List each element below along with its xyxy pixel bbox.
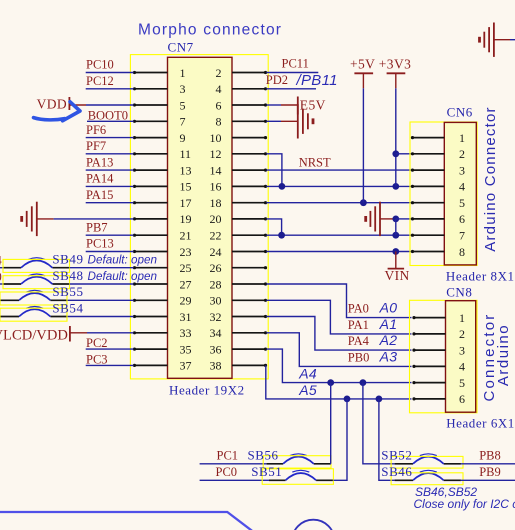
svg-text:SB48: SB48 xyxy=(52,268,83,283)
solder bridge SB48 xyxy=(4,274,70,284)
svg-text:PA14: PA14 xyxy=(86,172,114,186)
wire A4 down to SB52 xyxy=(363,383,395,464)
svg-text:5: 5 xyxy=(459,376,465,390)
wire SB49 to CN7 xyxy=(70,267,134,269)
svg-text:PC13: PC13 xyxy=(86,237,114,251)
svg-text:10: 10 xyxy=(210,131,222,145)
svg-text:5: 5 xyxy=(459,196,465,210)
svg-text:Header 6X1: Header 6X1 xyxy=(446,415,515,430)
svg-text:1: 1 xyxy=(180,66,186,80)
svg-text:2: 2 xyxy=(216,66,222,80)
wire SB48 to CN7 xyxy=(70,283,134,285)
selection highlight SB55 xyxy=(0,292,67,305)
ground symbol at CN7 pin 8 xyxy=(298,104,313,138)
solder bridge SB49 xyxy=(4,258,70,268)
svg-text:5: 5 xyxy=(180,98,186,112)
svg-text:8: 8 xyxy=(459,245,465,259)
junction CN7 pin12/pin16 xyxy=(279,183,286,190)
wire PF6 to CN7 pin 9 xyxy=(86,137,134,139)
wire CN7 pin 8 to ground xyxy=(267,120,298,122)
wire PF7 to CN7 pin 11 xyxy=(86,153,134,155)
wire PC1 to SB56 xyxy=(200,463,267,465)
ground symbol near CN6 pin 6 xyxy=(366,202,396,236)
svg-text:A2: A2 xyxy=(379,332,398,348)
wire +3V3 down to row 8 xyxy=(395,88,397,186)
selection highlight SB51 xyxy=(262,469,333,485)
svg-text:SB54: SB54 xyxy=(52,300,83,315)
svg-text:A0: A0 xyxy=(379,300,398,316)
wire PB0/A3 CN7 pin 34 to CN8 xyxy=(267,333,412,367)
svg-text:12: 12 xyxy=(210,147,222,161)
svg-text:PC12: PC12 xyxy=(86,74,114,88)
svg-text:SB56: SB56 xyxy=(248,448,279,463)
svg-text:4: 4 xyxy=(459,180,465,194)
wire left edge to SB48 xyxy=(0,283,4,285)
svg-text:1: 1 xyxy=(459,131,465,145)
svg-text:18: 18 xyxy=(210,196,222,210)
svg-text:3: 3 xyxy=(459,343,465,357)
wire PA4/A2 CN7 pin 32 to CN8 xyxy=(267,317,412,351)
wire at top right ground xyxy=(510,39,515,41)
svg-text:6: 6 xyxy=(459,392,465,406)
svg-text:35: 35 xyxy=(180,342,192,356)
svg-text:+3V3: +3V3 xyxy=(379,57,411,72)
circle part bottom xyxy=(292,520,335,530)
svg-text:A4: A4 xyxy=(298,366,317,382)
svg-text:34: 34 xyxy=(210,326,222,340)
svg-text:3: 3 xyxy=(180,82,186,96)
wire A5 CN7 pin 38 to CN8 pin 6 xyxy=(266,365,412,399)
svg-text:PC3: PC3 xyxy=(86,352,108,366)
wire +5V down to row 9 xyxy=(362,88,364,202)
CN6 pin numbers xyxy=(459,131,465,259)
power symbol E5V bar xyxy=(297,97,299,115)
wire PC12 to CN7 pin 3 xyxy=(86,88,134,90)
wire PA1/A1 CN7 pin 30 to CN8 xyxy=(267,300,412,334)
connector CN7 body xyxy=(168,57,233,378)
svg-text:Morpho connector: Morpho connector xyxy=(138,22,282,39)
selection highlight SB52 xyxy=(391,456,463,468)
svg-text:Default: open: Default: open xyxy=(88,270,158,283)
solder bridge SB56 xyxy=(267,454,331,464)
svg-text:20: 20 xyxy=(210,212,222,226)
junction +3V3 at CN6 pin 2 xyxy=(392,150,399,157)
wire SB51 up to A5 xyxy=(333,399,347,480)
wire CN7 pin 6 to E5V xyxy=(267,104,298,106)
svg-text:0: 0 xyxy=(0,270,2,284)
CN8 pins xyxy=(413,318,446,399)
wire left edge to SB49 xyxy=(0,267,4,269)
svg-text:BOOT0: BOOT0 xyxy=(88,108,128,122)
svg-text:NRST: NRST xyxy=(299,155,331,169)
svg-text:+5V: +5V xyxy=(350,57,375,72)
CN6 pins xyxy=(412,138,445,252)
svg-text:Header 19X2: Header 19X2 xyxy=(169,383,245,398)
wire ground CN6 pin6 to pin7 column xyxy=(395,219,397,235)
svg-text:13: 13 xyxy=(180,163,192,177)
CN7 left pin end dots xyxy=(133,71,136,367)
svg-text:SB49: SB49 xyxy=(52,252,83,267)
svg-text:38: 38 xyxy=(210,359,222,373)
svg-text:CN7: CN7 xyxy=(168,40,194,55)
wire PA0/A0 CN7 pin 28 to CN8 xyxy=(267,284,412,318)
svg-text:7: 7 xyxy=(180,115,186,129)
wire CN7 pin 20 jog to ground net xyxy=(267,219,282,235)
svg-text:PB9: PB9 xyxy=(479,465,501,479)
svg-text:/PB11: /PB11 xyxy=(296,72,338,89)
wire VIN net CN7 pin 24 to CN6 pin 8 xyxy=(267,251,412,253)
svg-text:3: 3 xyxy=(459,163,465,177)
svg-text:VIN: VIN xyxy=(385,268,410,283)
svg-text:PA13: PA13 xyxy=(86,155,113,169)
svg-text:8: 8 xyxy=(216,115,222,129)
annotation blue arrow pointing at BOOT0 xyxy=(34,102,81,121)
CN8 pin numbers xyxy=(459,311,465,406)
svg-text:14: 14 xyxy=(210,163,222,177)
svg-text:VLCD/VDD: VLCD/VDD xyxy=(0,327,68,343)
junction ground at CN6 pin 6 xyxy=(392,216,399,223)
wire PA14 to CN7 pin 15 xyxy=(86,185,134,187)
CN7 right pin end dots xyxy=(264,71,267,367)
svg-text:24: 24 xyxy=(210,245,222,259)
svg-text:A1: A1 xyxy=(379,316,398,332)
svg-text:PA15: PA15 xyxy=(86,188,113,202)
wire PC13 to CN7 pin 23 xyxy=(86,251,134,253)
svg-text:32: 32 xyxy=(210,310,222,324)
selection highlight SB48 xyxy=(3,276,70,289)
svg-text:Arduino: Arduino xyxy=(495,324,512,386)
solder bridge SB52 xyxy=(395,454,461,464)
svg-text:23: 23 xyxy=(180,245,192,259)
power symbol VDD bar xyxy=(68,97,70,110)
connector CN8 selection highlight xyxy=(410,300,478,413)
svg-text:33: 33 xyxy=(180,326,192,340)
svg-text:PD2: PD2 xyxy=(266,73,288,87)
svg-text:Arduino Connector: Arduino Connector xyxy=(482,106,499,251)
svg-text:36: 36 xyxy=(210,342,222,356)
svg-text:1: 1 xyxy=(459,311,465,325)
svg-text:PB7: PB7 xyxy=(86,220,108,234)
svg-text:PB0: PB0 xyxy=(348,350,370,364)
junction CN7 pin20/pin22 xyxy=(278,232,285,239)
wire +3V3 to CN6 pin 2 xyxy=(396,153,412,155)
wire PC10 to CN7 pin 1 xyxy=(86,72,134,74)
sheet outline bottom left xyxy=(0,512,252,530)
connector CN6 selection highlight xyxy=(410,122,477,266)
svg-text:6: 6 xyxy=(216,98,222,112)
wire SB54 to CN7 xyxy=(68,316,134,318)
connector CN6 body xyxy=(444,122,476,265)
wire PD2 from CN7 pin 4 xyxy=(267,88,317,90)
svg-text:PC1: PC1 xyxy=(217,449,239,463)
wire SB55 to CN7 xyxy=(68,299,134,301)
wire PC3 to CN7 pin 37 xyxy=(86,364,134,366)
svg-text:21: 21 xyxy=(180,229,192,243)
solder bridge SB51 xyxy=(269,470,333,480)
svg-text:PA1: PA1 xyxy=(348,318,369,332)
CN8 pin end dots xyxy=(412,316,415,401)
wire +3V3 net CN7 pin 16 to CN6 pin 4 xyxy=(267,185,412,187)
svg-text:6: 6 xyxy=(459,212,465,226)
junction A4/SB52 xyxy=(360,379,367,386)
wire SB52 to PB8 xyxy=(461,463,515,465)
wire CN7 pin 12 jog to +3V3 net xyxy=(267,154,282,187)
ground symbol at CN7 pin 19 xyxy=(22,202,54,236)
svg-text:22: 22 xyxy=(210,229,222,243)
connector CN7 selection highlight xyxy=(130,55,268,379)
wire SB56 up to A4 xyxy=(330,383,332,464)
wire ground net CN7 pin 22 to CN6 pin 7 xyxy=(267,234,412,236)
selection highlight SB49 xyxy=(3,259,70,272)
junction ground column xyxy=(392,232,399,239)
junction +5V column xyxy=(360,199,367,206)
wire PC2 to CN7 pin 35 xyxy=(86,348,134,350)
power symbol VIN xyxy=(388,252,405,269)
wire SB46 to PB9 xyxy=(461,479,515,481)
svg-text:31: 31 xyxy=(180,310,192,324)
svg-text:9: 9 xyxy=(180,131,186,145)
svg-text:A3: A3 xyxy=(379,348,398,364)
svg-text:28: 28 xyxy=(210,277,222,291)
wire BOOT0 to CN7 pin 7 xyxy=(87,120,134,122)
svg-text:27: 27 xyxy=(180,277,192,291)
svg-text:Close only for I2C co: Close only for I2C co xyxy=(414,497,515,511)
solder bridge SB54 xyxy=(0,307,68,317)
svg-text:PC0: PC0 xyxy=(216,465,238,479)
CN7 pin numbers xyxy=(180,66,222,373)
svg-text:2: 2 xyxy=(459,147,465,161)
svg-text:PA0: PA0 xyxy=(348,302,369,316)
wire VLCD/VDD to CN7 pin 33 xyxy=(70,332,134,334)
svg-text:SB52: SB52 xyxy=(381,448,412,463)
svg-text:16: 16 xyxy=(210,180,222,194)
svg-text:4: 4 xyxy=(216,82,222,96)
svg-text:30: 30 xyxy=(210,294,222,308)
selection highlight SB46 xyxy=(391,473,463,485)
svg-text:PB8: PB8 xyxy=(479,449,501,463)
svg-text:A5: A5 xyxy=(298,382,317,398)
wire A4 CN7 pin 36 to CN8 pin 5 xyxy=(267,349,412,383)
wire NRST CN7 pin 14 to CN6 pin 3 xyxy=(267,169,412,171)
junction A5/SB51 xyxy=(344,396,351,403)
svg-text:19: 19 xyxy=(180,212,192,226)
svg-text:4: 4 xyxy=(459,360,465,374)
power symbol +3V3 bar xyxy=(387,73,406,88)
wire PC0 to SB51 xyxy=(200,479,269,481)
wire ground to CN6 pin 6 xyxy=(396,218,412,220)
wire VDD to CN7 pin 5 xyxy=(69,104,133,106)
svg-text:SB51: SB51 xyxy=(251,464,282,479)
power symbol VLCD/VDD bar xyxy=(69,326,71,342)
svg-text:25: 25 xyxy=(180,261,192,275)
top right ground symbol xyxy=(480,23,511,57)
svg-text:CN8: CN8 xyxy=(446,285,472,300)
svg-text:26: 26 xyxy=(210,261,222,275)
svg-text:7: 7 xyxy=(459,229,465,243)
svg-text:29: 29 xyxy=(180,294,192,308)
svg-text:15: 15 xyxy=(180,180,192,194)
connector CN8 body xyxy=(446,301,476,413)
svg-text:PF7: PF7 xyxy=(86,139,106,153)
wire PC11 from CN7 pin 2 xyxy=(267,72,319,74)
svg-text:PC11: PC11 xyxy=(282,57,309,71)
junction VIN xyxy=(392,248,399,255)
svg-text:37: 37 xyxy=(180,359,192,373)
svg-text:SB46: SB46 xyxy=(381,464,412,479)
CN7 right pins (even) xyxy=(232,73,267,366)
wire ground to CN7 pin 19 xyxy=(54,218,134,220)
power symbol +5V bar xyxy=(354,73,373,88)
wire A5 down to SB46 xyxy=(379,399,395,480)
svg-text:SB55: SB55 xyxy=(52,284,83,299)
CN6 pin end dots xyxy=(411,136,414,253)
svg-text:PC10: PC10 xyxy=(86,58,114,72)
svg-text:11: 11 xyxy=(180,147,192,161)
wire PA15 to CN7 pin 17 xyxy=(86,202,134,204)
svg-text:PF6: PF6 xyxy=(86,123,106,137)
wire PA13 to CN7 pin 13 xyxy=(86,169,134,171)
wire +5V net CN7 pin 18 to CN6 pin 5 xyxy=(267,202,412,204)
solder bridge SB46 xyxy=(395,470,461,480)
svg-text:PA4: PA4 xyxy=(348,334,370,348)
svg-text:Header 8X1: Header 8X1 xyxy=(446,268,515,283)
svg-text:CN6: CN6 xyxy=(447,105,473,120)
CN7 left pins (odd) xyxy=(134,73,168,366)
junction A5/SB46 xyxy=(376,396,383,403)
svg-text:PC2: PC2 xyxy=(86,336,108,350)
selection highlight SB56 xyxy=(263,456,331,468)
junction +3V3 column xyxy=(392,183,399,190)
svg-text:VDD: VDD xyxy=(37,97,67,112)
junction A4/SB56 xyxy=(327,379,334,386)
svg-text:2: 2 xyxy=(459,327,465,341)
svg-text:Default: open: Default: open xyxy=(88,254,158,267)
solder bridge SB55 xyxy=(0,290,68,300)
wire PB7 to CN7 pin 21 xyxy=(86,234,134,236)
svg-text:17: 17 xyxy=(180,196,192,210)
selection highlight SB54 xyxy=(0,308,67,321)
